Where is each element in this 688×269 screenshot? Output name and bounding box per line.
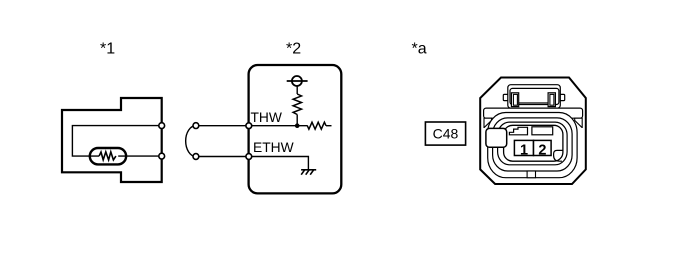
wire resistor to THW junction (296, 115, 298, 126)
wire power to resistor (296, 86, 298, 94)
junction node THW (295, 123, 300, 128)
connector dog-ear pocket (554, 150, 564, 161)
connector lock cross lines (519, 102, 548, 104)
wire stub after resistor (326, 125, 332, 127)
svg-text:*a: *a (412, 41, 427, 58)
resistor pull-up vertical R1 (293, 94, 301, 115)
connector lock housing (508, 85, 561, 109)
terminal cavity 2 (534, 140, 552, 155)
ECM terminal THW (246, 123, 252, 129)
connector collar wing left (484, 118, 492, 127)
connector label box C48 (425, 122, 465, 145)
svg-text:1: 1 (520, 142, 528, 158)
ECM terminal ETHW (246, 154, 252, 160)
connector lock clip left (511, 93, 518, 107)
wire sensor internal loop (72, 126, 161, 157)
terminal cavity 1 (514, 140, 533, 155)
wire THW inside ECM (249, 125, 308, 127)
connector key polygon (509, 127, 527, 135)
resistor thermistor zigzag (99, 152, 116, 160)
svg-text:C48: C48 (433, 126, 459, 142)
connector face (504, 125, 563, 161)
ECU box (*2 ECM) (249, 65, 342, 193)
connector bottom notch (527, 171, 535, 178)
wire THW harness segment (196, 125, 249, 127)
connector seal ring inner (498, 122, 567, 165)
wire ETHW inside ECM (249, 157, 309, 170)
harness terminal node lower (193, 154, 199, 160)
connector C48 body octagon (480, 78, 586, 185)
wire thermistor to terminal 2 (118, 155, 162, 157)
resistor pull-up horizontal R2 (307, 122, 326, 129)
svg-text:*2: *2 (286, 41, 301, 58)
connector collar bar (484, 108, 583, 118)
wire power rail (287, 80, 308, 82)
ground symbol (301, 170, 316, 175)
harness terminal node upper (193, 123, 199, 129)
thermistor capsule outline (90, 148, 126, 164)
connector lock ear left (503, 94, 508, 100)
connector seal ring middle (493, 118, 572, 171)
svg-text:THW: THW (251, 110, 282, 125)
sensor terminal pin 1 (159, 123, 165, 129)
connector lock ear right (560, 94, 565, 100)
sensor body outline (coolant temp sensor *1) (62, 98, 162, 182)
svg-text:2: 2 (538, 142, 546, 158)
svg-text:*1: *1 (100, 41, 115, 58)
connector side tab (486, 128, 507, 147)
connector lock inner bar (510, 88, 559, 104)
svg-text:ETHW: ETHW (253, 140, 294, 155)
connector seal ring outer (488, 113, 577, 178)
connector index rect (532, 127, 553, 135)
power supply symbol (292, 76, 302, 86)
sensor terminal pin 2 (159, 153, 165, 159)
connector lock clip right (548, 93, 555, 107)
wire harness arc between connectors (186, 126, 196, 157)
wire ETHW harness segment (196, 156, 249, 158)
connector collar wing right (575, 118, 583, 127)
